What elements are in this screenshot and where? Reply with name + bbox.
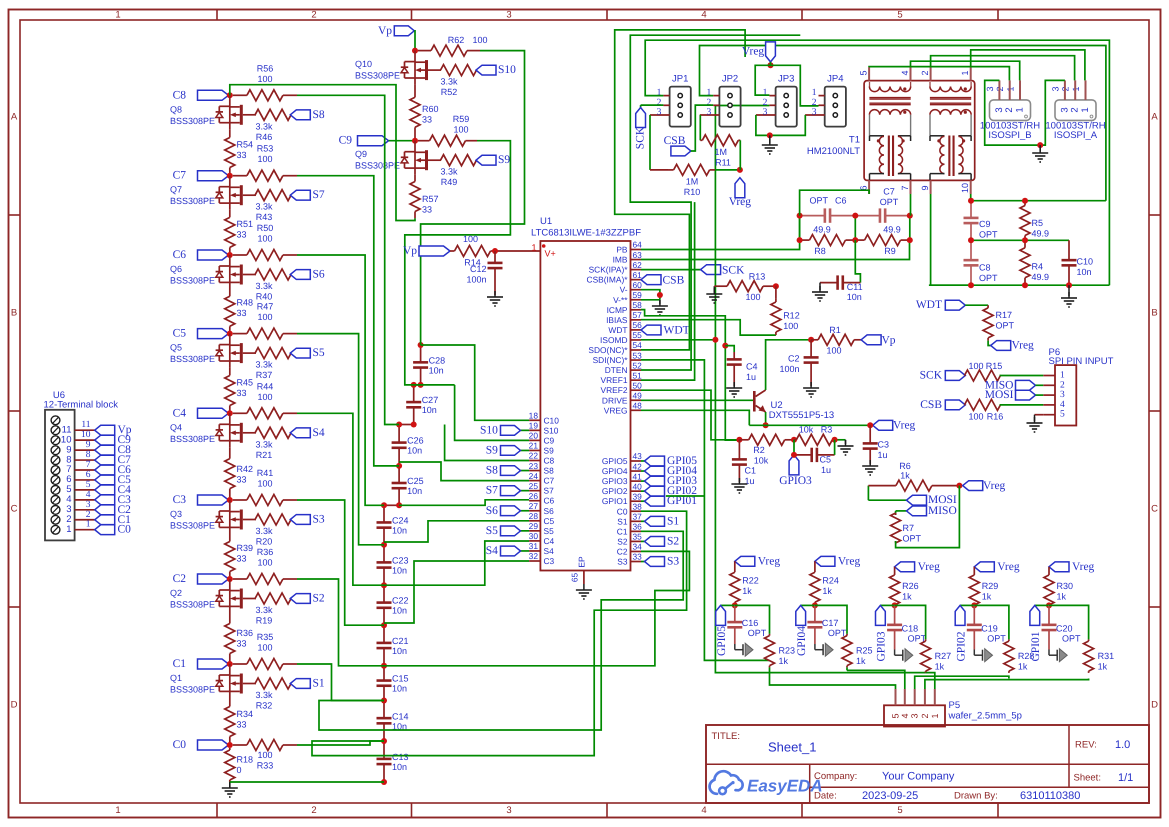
wire junction to R28 (974, 605, 1009, 639)
svg-text:S9: S9 (498, 154, 510, 166)
resistor R34 33 (225, 698, 253, 745)
junction node C27 top (411, 382, 417, 388)
junction filter (907, 213, 913, 219)
svg-text:3: 3 (910, 713, 920, 718)
svg-text:1k: 1k (1057, 592, 1067, 602)
svg-text:5: 5 (859, 70, 869, 75)
junction C5 (227, 331, 233, 337)
resistor R23 1k (765, 634, 796, 668)
U1 pin 33 S3 (617, 552, 642, 567)
svg-text:3.3k: 3.3k (255, 360, 273, 370)
svg-text:Vreg: Vreg (1012, 340, 1035, 352)
svg-text:C4: C4 (544, 536, 555, 546)
capacitor C6 OPT (800, 196, 856, 235)
svg-text:S7: S7 (486, 485, 498, 497)
net flag S9 (476, 154, 510, 166)
U1 pin 37 S1 (617, 512, 642, 527)
net flag C8 (173, 89, 230, 101)
junction node C24 top (381, 502, 387, 508)
net flag S5 (290, 347, 325, 359)
net flag GPI01 at U1 (641, 495, 697, 507)
transistor Q5 BSS308PE (170, 334, 256, 368)
resistor R53 100 (233, 144, 297, 182)
wire junction to R25 (815, 605, 847, 634)
svg-text:C4: C4 (173, 407, 187, 419)
svg-text:R41: R41 (257, 468, 274, 478)
U6 pin 2 net C1 (66, 510, 131, 526)
svg-text:1k: 1k (902, 592, 912, 602)
svg-text:5: 5 (86, 480, 91, 490)
U1 pin 19 S10 (529, 421, 559, 436)
svg-text:GPI05: GPI05 (716, 626, 728, 656)
svg-text:Q10: Q10 (355, 59, 372, 69)
junction ICMP C4 (722, 343, 728, 349)
svg-text:BSS308PE: BSS308PE (170, 196, 215, 206)
connector P5 wafer_2.5mm_5p (884, 689, 1022, 727)
svg-text:31: 31 (529, 541, 539, 551)
svg-text:33: 33 (237, 388, 247, 398)
svg-text:GPI01: GPI01 (1030, 631, 1042, 661)
svg-text:GPIO4: GPIO4 (602, 466, 628, 476)
wire pin59 V-** to ground (641, 299, 660, 301)
U1 pin 32 C3 (529, 551, 555, 566)
resistor R8 49.9 (800, 235, 856, 256)
wire C8 to U1 pin22 (445, 425, 529, 461)
capacitor C25 10n (392, 466, 424, 505)
svg-text:R47: R47 (257, 302, 274, 312)
U6 pin 8 net C7 (66, 450, 131, 466)
svg-text:SDI(NC)*: SDI(NC)* (593, 355, 629, 365)
svg-text:C9: C9 (979, 219, 991, 229)
U1 pin 54 SDO(NC)* (588, 340, 642, 355)
resistor R19 3.3k (255, 593, 291, 626)
svg-text:39: 39 (633, 491, 643, 501)
U1 pin 60 V- (620, 280, 643, 295)
svg-text:49.9: 49.9 (1032, 272, 1050, 282)
svg-text:R7: R7 (903, 523, 915, 533)
svg-text:R16: R16 (987, 412, 1004, 422)
svg-text:32: 32 (529, 551, 539, 561)
ground EP (583, 584, 585, 590)
junction GPI04 (812, 602, 818, 608)
net flag GPI05 at U1 (641, 455, 697, 467)
svg-text:OPT: OPT (987, 634, 1006, 644)
net flag Vreg at R24 (815, 555, 861, 567)
svg-text:3: 3 (812, 108, 817, 118)
svg-text:R36: R36 (257, 547, 274, 557)
net flag S2 (290, 593, 325, 605)
svg-text:10k: 10k (754, 456, 769, 466)
svg-text:5: 5 (897, 805, 902, 816)
resistor R12 100 (771, 286, 800, 335)
svg-text:OPT: OPT (996, 321, 1015, 331)
junction node C26 top (396, 422, 402, 428)
wire Vreg to JP3 pin1 (755, 62, 770, 95)
net flag WDT at pin56 (641, 325, 690, 337)
wire R62 C10 route (421, 51, 525, 345)
junction node C13 top (381, 738, 387, 744)
svg-text:TITLE:: TITLE: (712, 731, 741, 742)
svg-text:S4: S4 (544, 546, 555, 556)
svg-text:C7: C7 (544, 476, 555, 486)
wire P6 pin5 to ground (1035, 414, 1044, 416)
svg-text:DTEN: DTEN (605, 365, 628, 375)
junction C0 (227, 742, 233, 748)
svg-text:10n: 10n (429, 365, 444, 375)
U1 pin 27 S6 (529, 501, 554, 516)
capacitor C20 OPT (1042, 605, 1082, 649)
svg-text:C3: C3 (173, 494, 187, 506)
svg-text:1: 1 (115, 10, 120, 21)
svg-text:S7: S7 (313, 189, 325, 201)
wire pin55 ISOMD to JP3 pin2 (641, 106, 769, 340)
svg-text:GPIO1: GPIO1 (602, 496, 628, 506)
svg-text:R13: R13 (749, 272, 766, 282)
resistor R37 3.3k (255, 348, 291, 381)
svg-text:22: 22 (529, 451, 539, 461)
svg-text:64: 64 (633, 240, 643, 250)
U1 pin 51 VREF1 (601, 370, 643, 385)
svg-text:C3: C3 (878, 440, 890, 450)
wire C4 to U1 pin30 (384, 541, 529, 585)
svg-text:41: 41 (633, 471, 643, 481)
svg-text:33: 33 (237, 308, 247, 318)
wire cell4 to P5 pin3 (915, 676, 1009, 689)
svg-text:3.3k: 3.3k (255, 439, 273, 449)
svg-text:S3: S3 (667, 556, 679, 568)
svg-text:R5: R5 (1032, 218, 1044, 228)
wire row isoA top (971, 200, 1106, 202)
junction filter right (968, 237, 974, 243)
U1 pin 21 S9 (529, 441, 554, 456)
net flag MISO at P6 (985, 379, 1044, 391)
U1 pin 43 GPIO5 (602, 451, 642, 466)
net flag SCK at JP1 (634, 105, 663, 149)
svg-text:R50: R50 (257, 223, 274, 233)
resistor R60 33 (410, 85, 439, 140)
svg-text:1: 1 (812, 88, 817, 98)
svg-text:D: D (11, 700, 18, 711)
jumper JP1 (650, 74, 691, 127)
svg-text:100: 100 (826, 346, 841, 356)
resistor R57 33 (410, 175, 439, 219)
T1 pin 10 (960, 180, 971, 194)
svg-text:C0: C0 (118, 524, 132, 536)
svg-text:R35: R35 (257, 632, 274, 642)
wire ISOSPI_B pin3 to ground (985, 80, 1040, 145)
junction R1 C2 (808, 337, 814, 343)
wire pin63 IMB to R9 C7 (641, 240, 910, 259)
ground arrow C16 (735, 643, 753, 656)
svg-text:29: 29 (529, 521, 539, 531)
wire T1 pin2 to ISOSPI_A pin2 (931, 56, 1075, 81)
svg-text:C22: C22 (392, 596, 409, 606)
svg-text:C10: C10 (1077, 257, 1094, 267)
wire U2 collector to R1 junction (766, 340, 812, 390)
svg-text:100: 100 (257, 154, 272, 164)
capacitor C11 10n (820, 275, 863, 302)
svg-text:3: 3 (994, 107, 1005, 112)
svg-text:2: 2 (920, 713, 930, 718)
resistor R22 1k (730, 561, 759, 605)
resistor R45 33 (225, 368, 253, 414)
svg-text:40: 40 (633, 481, 643, 491)
U1 pin 20 C9 (529, 431, 555, 446)
svg-text:100: 100 (257, 392, 272, 402)
svg-text:2: 2 (1004, 107, 1015, 112)
U1 pin 40 GPIO2 (602, 481, 642, 496)
net flag C2 (173, 573, 230, 585)
T1 pin 5 (859, 67, 870, 81)
transistor U2 DXT5551P5-13 (753, 390, 834, 421)
net flag SCK at pin62 (641, 264, 745, 276)
junction node C28 top (418, 342, 424, 348)
svg-text:R37: R37 (256, 370, 273, 380)
resistor R7 OPT (891, 511, 922, 544)
svg-text:5: 5 (897, 10, 902, 21)
svg-text:R60: R60 (422, 104, 439, 114)
svg-text:3.3k: 3.3k (255, 526, 273, 536)
svg-text:R62: R62 (448, 35, 465, 45)
resistor R31 1k (1084, 639, 1115, 673)
net flag C7 (173, 170, 230, 182)
junction GPI02 (971, 602, 977, 608)
U1 pin 64 PB (616, 240, 642, 255)
svg-text:Q6: Q6 (170, 264, 182, 274)
ground at P6 (1027, 415, 1043, 432)
U1 pin 36 C1 (617, 522, 642, 537)
svg-text:Vp: Vp (882, 334, 896, 346)
svg-text:4: 4 (900, 70, 910, 75)
wire R41 C3 row to cap ladder (297, 500, 384, 625)
svg-text:1: 1 (1015, 107, 1026, 112)
svg-text:CSB: CSB (920, 399, 942, 411)
net flag GPI02 (955, 605, 974, 661)
svg-text:S5: S5 (544, 526, 555, 536)
svg-text:33: 33 (237, 150, 247, 160)
svg-text:HM2100NLT: HM2100NLT (807, 146, 860, 157)
svg-text:51: 51 (633, 370, 643, 380)
ground below C10 (1061, 285, 1077, 307)
net flag Vreg at R6 (963, 480, 1006, 492)
svg-text:33: 33 (237, 230, 247, 240)
svg-text:Sheet:: Sheet: (1074, 773, 1101, 784)
svg-text:R52: R52 (441, 87, 458, 97)
svg-text:7: 7 (900, 185, 910, 190)
wire pin50 VREF2 to R2 divider (641, 390, 739, 440)
net flag Vreg at R30 (1049, 561, 1095, 573)
U1 pin 25 S7 (529, 481, 554, 496)
svg-text:S1: S1 (617, 516, 628, 526)
svg-text:OPT: OPT (903, 534, 922, 544)
wire ground link C13 bottom to R18 (230, 781, 384, 783)
net flag Vreg below R17 (988, 340, 1034, 352)
svg-text:1u: 1u (746, 372, 756, 382)
svg-text:R30: R30 (1057, 581, 1074, 591)
svg-text:S8: S8 (313, 109, 325, 121)
svg-text:C14: C14 (392, 711, 409, 721)
svg-text:1k: 1k (779, 656, 789, 666)
wire cell5 to P5 pin2 (925, 679, 1089, 690)
svg-text:Vreg: Vreg (838, 555, 861, 567)
junction V+ (492, 248, 498, 254)
svg-text:C0: C0 (173, 739, 187, 751)
wire pin64 PB to R8 C6 (641, 216, 800, 250)
net flag S7 at U1 (486, 485, 529, 497)
svg-text:C16: C16 (742, 618, 759, 628)
junction GPI01 (1046, 602, 1052, 608)
svg-text:ISOSPI_A: ISOSPI_A (1054, 130, 1098, 141)
svg-text:33: 33 (237, 475, 247, 485)
connector U6 12-Terminal block (44, 390, 119, 541)
svg-text:R31: R31 (1098, 651, 1115, 661)
capacitor C4 1u (725, 346, 757, 382)
svg-text:21: 21 (529, 441, 539, 451)
svg-text:BSS308PE: BSS308PE (170, 434, 215, 444)
svg-text:R44: R44 (257, 381, 274, 391)
net flag S9 at U1 (486, 444, 529, 456)
connector ISOSPI_A 100103ST/RH (1045, 80, 1105, 141)
wire R36 C2 row to cap ladder (297, 579, 384, 666)
svg-text:100: 100 (472, 35, 487, 45)
svg-text:1k: 1k (900, 470, 910, 480)
wire pin58 ICMP route (641, 310, 739, 441)
junction node C13 bottom (381, 779, 387, 785)
capacitor C22 10n (377, 585, 409, 625)
svg-text:1: 1 (1060, 371, 1065, 381)
svg-text:9: 9 (86, 440, 91, 450)
svg-text:EasyEDA: EasyEDA (747, 777, 823, 796)
resistor R35 100 (233, 632, 297, 670)
svg-text:R10: R10 (684, 187, 701, 197)
svg-text:C12: C12 (470, 264, 487, 274)
svg-text:Vreg: Vreg (742, 46, 765, 58)
net flag GPI04 at U1 (641, 465, 697, 477)
svg-text:S5: S5 (313, 347, 325, 359)
svg-text:S7: S7 (544, 486, 555, 496)
svg-text:GPI04: GPI04 (796, 626, 808, 656)
net flag Vp (378, 25, 415, 51)
svg-text:C9: C9 (339, 135, 353, 147)
svg-text:61: 61 (633, 270, 643, 280)
junction filter right (968, 198, 974, 204)
svg-text:BSS308PE: BSS308PE (355, 71, 400, 81)
svg-text:BSS308PE: BSS308PE (170, 116, 215, 126)
svg-text:10n: 10n (847, 292, 862, 302)
svg-text:50: 50 (633, 380, 643, 390)
resistor R4 49.9 (1020, 240, 1049, 285)
svg-text:PB: PB (616, 245, 628, 255)
resistor R59 100 (418, 114, 477, 146)
resistor R26 1k (890, 567, 919, 606)
capacitor C10 10n (1062, 240, 1094, 285)
svg-text:4: 4 (701, 805, 706, 816)
svg-text:A: A (1151, 112, 1158, 123)
U1 pin 50 VREF2 (601, 380, 643, 395)
svg-text:ICMP: ICMP (607, 305, 628, 315)
net flag C0 (173, 739, 230, 751)
wire pin51 VREF1 route (641, 202, 695, 380)
svg-text:2: 2 (311, 10, 316, 21)
svg-text:Q7: Q7 (170, 185, 182, 195)
net flag GPI03 at U1 (641, 475, 697, 487)
svg-text:56: 56 (633, 320, 643, 330)
svg-text:12-Terminal block: 12-Terminal block (44, 400, 119, 411)
svg-text:A: A (11, 112, 18, 123)
capacitor C23 10n (377, 545, 409, 585)
svg-text:1k: 1k (982, 592, 992, 602)
junction R3 left (791, 437, 797, 443)
svg-text:33: 33 (422, 115, 432, 125)
resistor R10 1M (650, 164, 715, 197)
svg-text:6310110380: 6310110380 (1020, 790, 1080, 802)
capacitor C2 100n (779, 340, 818, 374)
wire C6 to U1 pin26 (399, 500, 529, 506)
wire C10 to U1 pin18 (421, 345, 529, 420)
net flag C9 (339, 135, 415, 147)
capacitor C5 1u (794, 440, 835, 475)
svg-text:BSS308PE: BSS308PE (170, 354, 215, 364)
wire junction to R27 (895, 605, 926, 639)
svg-text:3.3k: 3.3k (255, 121, 273, 131)
svg-text:C8: C8 (979, 263, 991, 273)
net flag Vp right (861, 334, 896, 346)
net flag Vp at R14 (403, 245, 450, 257)
svg-text:1u: 1u (821, 465, 831, 475)
svg-text:4: 4 (701, 10, 706, 21)
svg-text:1: 1 (763, 88, 768, 98)
svg-text:100: 100 (968, 361, 983, 371)
svg-text:27: 27 (529, 501, 539, 511)
svg-text:Q1: Q1 (170, 673, 182, 683)
junction pin55 bundle (712, 337, 718, 343)
svg-text:C2: C2 (617, 546, 628, 556)
svg-text:10n: 10n (1077, 267, 1092, 277)
svg-text:33: 33 (633, 552, 643, 562)
svg-text:D: D (1151, 700, 1158, 711)
resistor R16 100 (964, 399, 1003, 421)
svg-text:42: 42 (633, 461, 643, 471)
resistor R29 1k (969, 567, 998, 606)
transistor Q3 BSS308PE (170, 500, 256, 534)
net flag GPI01 (1030, 605, 1049, 661)
net flag S6 at U1 (486, 505, 529, 517)
net flag S10 (476, 64, 516, 76)
svg-text:C6: C6 (544, 496, 555, 506)
svg-text:JP4: JP4 (827, 74, 843, 85)
svg-text:3.3k: 3.3k (255, 690, 273, 700)
junction R10 R11 Vreg (737, 167, 743, 173)
transistor Q10 BSS308PE (355, 51, 441, 85)
svg-text:1M: 1M (686, 177, 699, 187)
svg-text:10n: 10n (407, 446, 422, 456)
wire bundle to P5 pin1 row (715, 340, 925, 673)
svg-text:10k: 10k (799, 425, 814, 435)
svg-text:C6: C6 (835, 196, 847, 206)
svg-text:R3: R3 (821, 425, 833, 435)
svg-text:24: 24 (529, 471, 539, 481)
ground V- (652, 300, 668, 315)
resistor R21 3.3k (255, 427, 291, 460)
svg-text:R12: R12 (783, 311, 800, 321)
svg-text:C2: C2 (173, 573, 187, 585)
wire R35 C1 row to cap ladder (297, 664, 384, 701)
wire cell2 to P5 pin4 (847, 670, 905, 689)
junction node C25 top (396, 463, 402, 469)
svg-text:25: 25 (529, 481, 539, 491)
net flag C3 (173, 494, 230, 506)
junction filter right (1066, 282, 1072, 288)
